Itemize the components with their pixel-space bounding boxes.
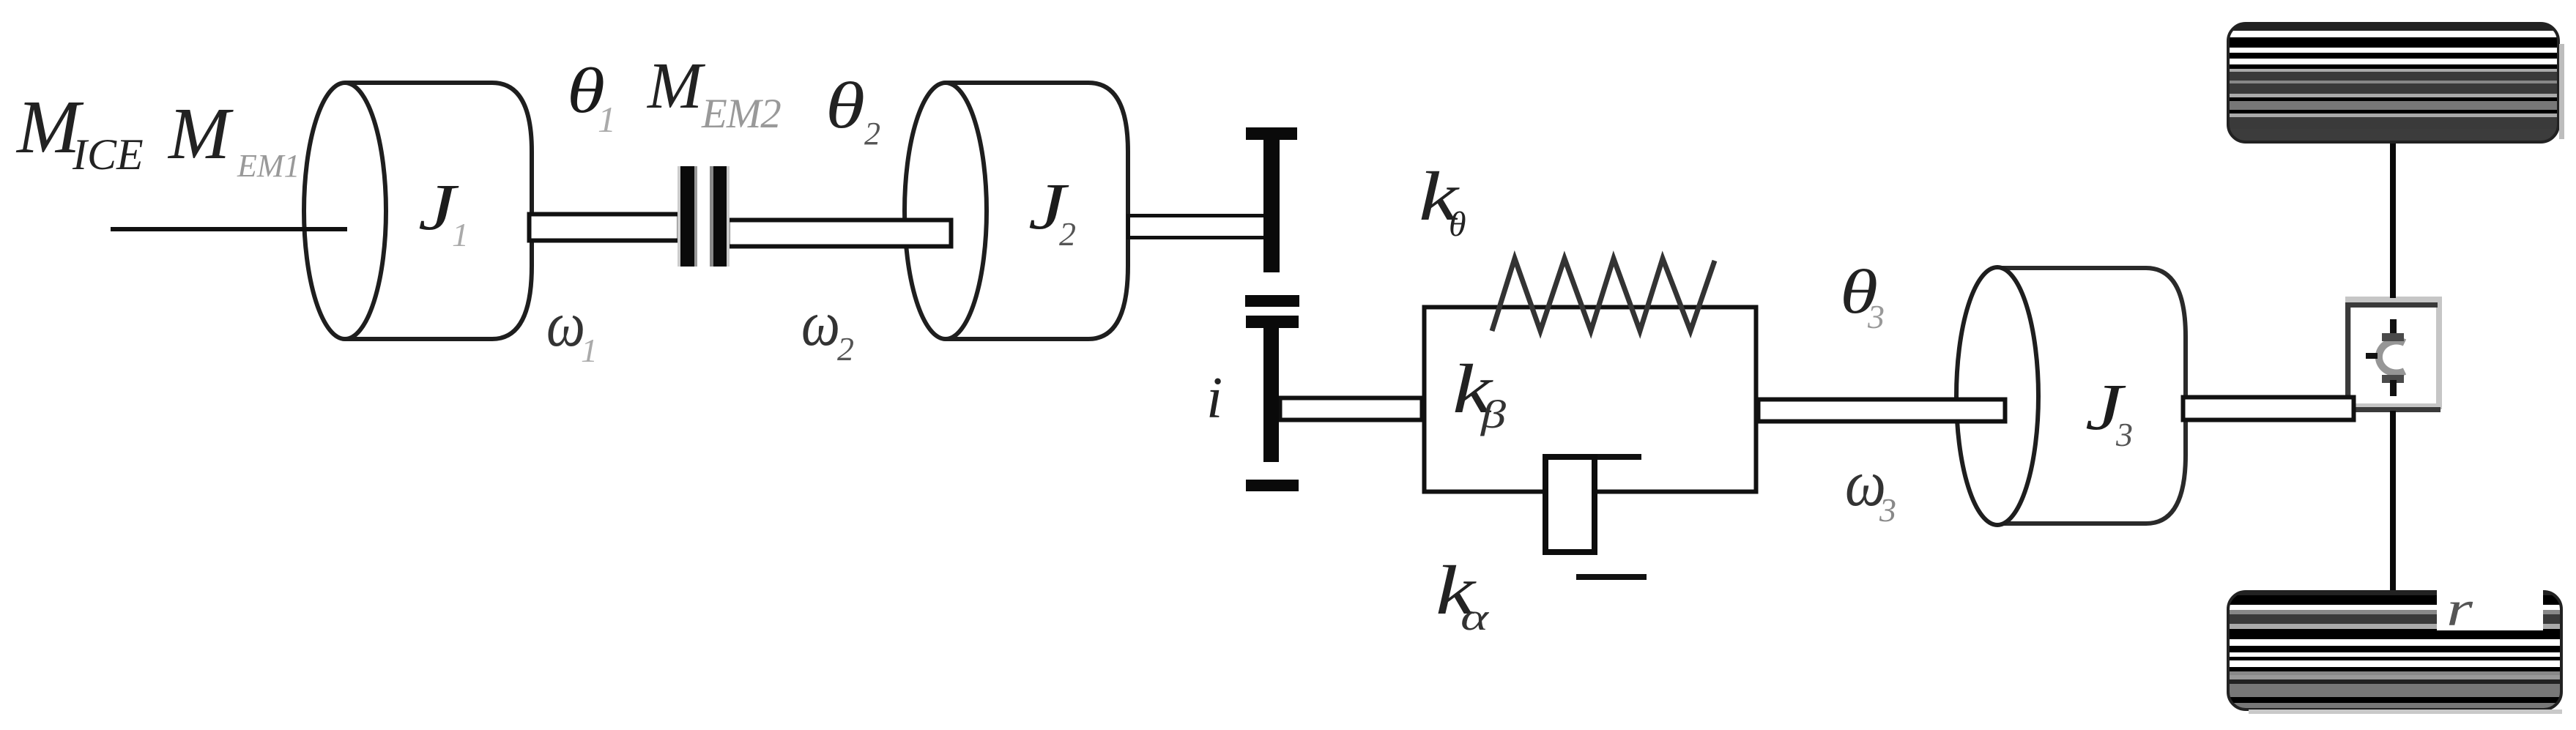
inertia J3 body xyxy=(1997,268,2186,524)
svg-text:ω: ω xyxy=(801,288,840,360)
flywheel J1 face xyxy=(304,83,386,339)
gear lower: mesh bar 2 xyxy=(1246,316,1299,328)
shaft gear to gearbox xyxy=(1280,398,1422,420)
gear lower: mesh bar 1 xyxy=(1245,295,1299,307)
svg-text:2: 2 xyxy=(864,116,880,152)
top wheel scan shadow xyxy=(2559,44,2564,139)
svg-text:r: r xyxy=(2446,581,2473,636)
svg-text:EM2: EM2 xyxy=(701,91,781,137)
svg-text:3: 3 xyxy=(1879,491,1896,529)
gear upper: top cap xyxy=(1246,127,1297,140)
svg-text:M: M xyxy=(646,50,706,122)
svg-text:2: 2 xyxy=(1059,215,1076,253)
clutch plate left xyxy=(678,166,680,267)
shaft clutch to J2 xyxy=(728,220,951,247)
svg-text:ω: ω xyxy=(546,289,585,360)
svg-text:1: 1 xyxy=(452,216,469,253)
spring k_theta xyxy=(1492,258,1715,331)
gearbox housing box k_beta xyxy=(1425,308,1756,492)
bottom wheel scan shadow xyxy=(2249,709,2562,714)
svg-text:ICE: ICE xyxy=(72,130,144,179)
input torque line M_ICE/M_EM1 xyxy=(111,227,347,231)
shaft J2 to gear xyxy=(1129,216,1272,238)
svg-text:1: 1 xyxy=(598,99,616,140)
svg-text:2: 2 xyxy=(837,330,854,368)
CV joint box dark outline xyxy=(2348,305,2441,410)
svg-text:i: i xyxy=(1206,366,1222,431)
shaft gearbox to J3 xyxy=(1759,400,2005,422)
damper k_alpha piston rod xyxy=(1597,454,1641,460)
wheel bottom (tyre) xyxy=(2228,592,2561,709)
shaft J3 to joint xyxy=(2183,398,2354,420)
axle upper segment xyxy=(2390,141,2396,298)
svg-text:θ: θ xyxy=(1449,205,1466,244)
damper k_alpha cylinder xyxy=(1545,457,1595,552)
gear upper: stem xyxy=(1263,134,1280,272)
svg-text:M: M xyxy=(167,92,234,174)
shaft J1 to clutch xyxy=(530,215,680,241)
svg-text:3: 3 xyxy=(1867,298,1885,335)
CV joint centreline symbol xyxy=(2390,319,2397,335)
inertia J2 face xyxy=(905,83,987,339)
gear lower: stem xyxy=(1263,322,1279,462)
inertia J2 body xyxy=(946,83,1128,339)
flywheel J1 body xyxy=(345,83,532,339)
inertia J3 face xyxy=(1956,267,2038,525)
wheel top (tyre) xyxy=(2228,23,2558,142)
svg-text:EM1: EM1 xyxy=(237,148,300,184)
ground reference dash xyxy=(1576,574,1647,580)
svg-text:α: α xyxy=(1460,597,1490,638)
CV joint box light outline xyxy=(2348,299,2439,406)
svg-text:3: 3 xyxy=(2115,416,2133,453)
white notch for r label xyxy=(2437,589,2543,630)
gear lower: bottom cap xyxy=(1246,480,1299,491)
svg-text:β: β xyxy=(1480,392,1506,436)
svg-text:θ: θ xyxy=(825,70,865,142)
clutch plate right xyxy=(710,166,713,267)
axle lower segment xyxy=(2390,411,2396,592)
svg-text:1: 1 xyxy=(581,332,598,369)
